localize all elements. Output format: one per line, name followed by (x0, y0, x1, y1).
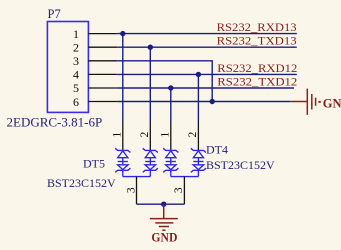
wire dropper from pin1 (122, 34, 124, 121)
wire dropper from pin5 (170, 88, 172, 121)
junction row2 (148, 45, 153, 50)
power port GND (right, sideways) (290, 89, 319, 115)
DT5 pin 1 (vertical) (122, 121, 124, 150)
svg-text:5: 5 (73, 81, 79, 95)
TVS diode stack DT5-A (115, 148, 130, 176)
pin 1 lead (88, 33, 117, 35)
svg-text:2: 2 (139, 131, 151, 137)
svg-text:6: 6 (73, 95, 79, 109)
svg-text:2: 2 (73, 40, 79, 54)
pin 2 lead (88, 46, 117, 48)
wire row1 RS232_RXD13 (117, 33, 297, 35)
DT4 bottom lead join (171, 176, 199, 178)
junction row1 (120, 31, 125, 36)
svg-text:3: 3 (73, 54, 79, 68)
power port GND (bottom) (150, 204, 178, 230)
svg-text:3: 3 (125, 187, 137, 193)
DT4 pin 3 (183, 177, 185, 205)
svg-text:RS232_TXD12: RS232_TXD12 (217, 74, 297, 88)
svg-text:P7: P7 (48, 7, 61, 21)
svg-text:2: 2 (187, 131, 199, 137)
svg-text:DT4: DT4 (206, 142, 228, 156)
svg-text:1: 1 (160, 131, 172, 137)
svg-text:3: 3 (173, 187, 185, 193)
wire row2 RS232_TXD13 (117, 46, 297, 48)
TVS diode stack DT4-B (191, 148, 206, 176)
connector P7 body (47, 22, 88, 113)
DT4 pin 2 (vertical) (197, 121, 199, 150)
svg-text:1: 1 (73, 27, 79, 41)
junction row4 (196, 72, 201, 77)
junction GND (161, 202, 166, 207)
DT4 pin 1 (vertical) (170, 121, 172, 150)
TVS diode stack DT4-A (163, 148, 178, 176)
junction row5 (168, 85, 173, 90)
svg-text:RS232_RXD12: RS232_RXD12 (217, 61, 297, 75)
svg-text:DT5: DT5 (83, 157, 105, 171)
TVS diode stack DT5-B (143, 148, 158, 176)
pin 5 lead (88, 87, 117, 89)
pin 4 lead (88, 73, 117, 75)
wire dropper from pin2 (149, 47, 151, 121)
svg-text:GND: GND (151, 231, 177, 245)
junction row6 (210, 99, 215, 104)
svg-text:RS232_TXD13: RS232_TXD13 (217, 34, 297, 48)
pin 3 lead (88, 60, 117, 62)
wire joining pin3s (137, 203, 185, 205)
DT5 pin 3 (136, 177, 138, 205)
wire row4 RS232_RXD12 (117, 73, 297, 75)
svg-text:RS232_RXD13: RS232_RXD13 (217, 20, 297, 34)
wire row6 to GND port (117, 101, 290, 103)
svg-text:2EDGRC-3.81-6P: 2EDGRC-3.81-6P (7, 115, 103, 130)
svg-text:BST23C152V: BST23C152V (47, 176, 116, 190)
svg-text:GND: GND (323, 96, 341, 110)
pin 6 lead (88, 101, 117, 103)
wire dropper from pin4 (197, 74, 199, 121)
wire row3 (117, 61, 212, 102)
svg-text:1: 1 (112, 131, 124, 137)
svg-text:BST23C152V: BST23C152V (206, 158, 275, 172)
DT5 bottom lead join (123, 176, 151, 178)
wire row5 RS232_TXD12 (117, 87, 294, 89)
svg-text:4: 4 (73, 68, 79, 82)
DT5 pin 2 (vertical) (149, 121, 151, 150)
